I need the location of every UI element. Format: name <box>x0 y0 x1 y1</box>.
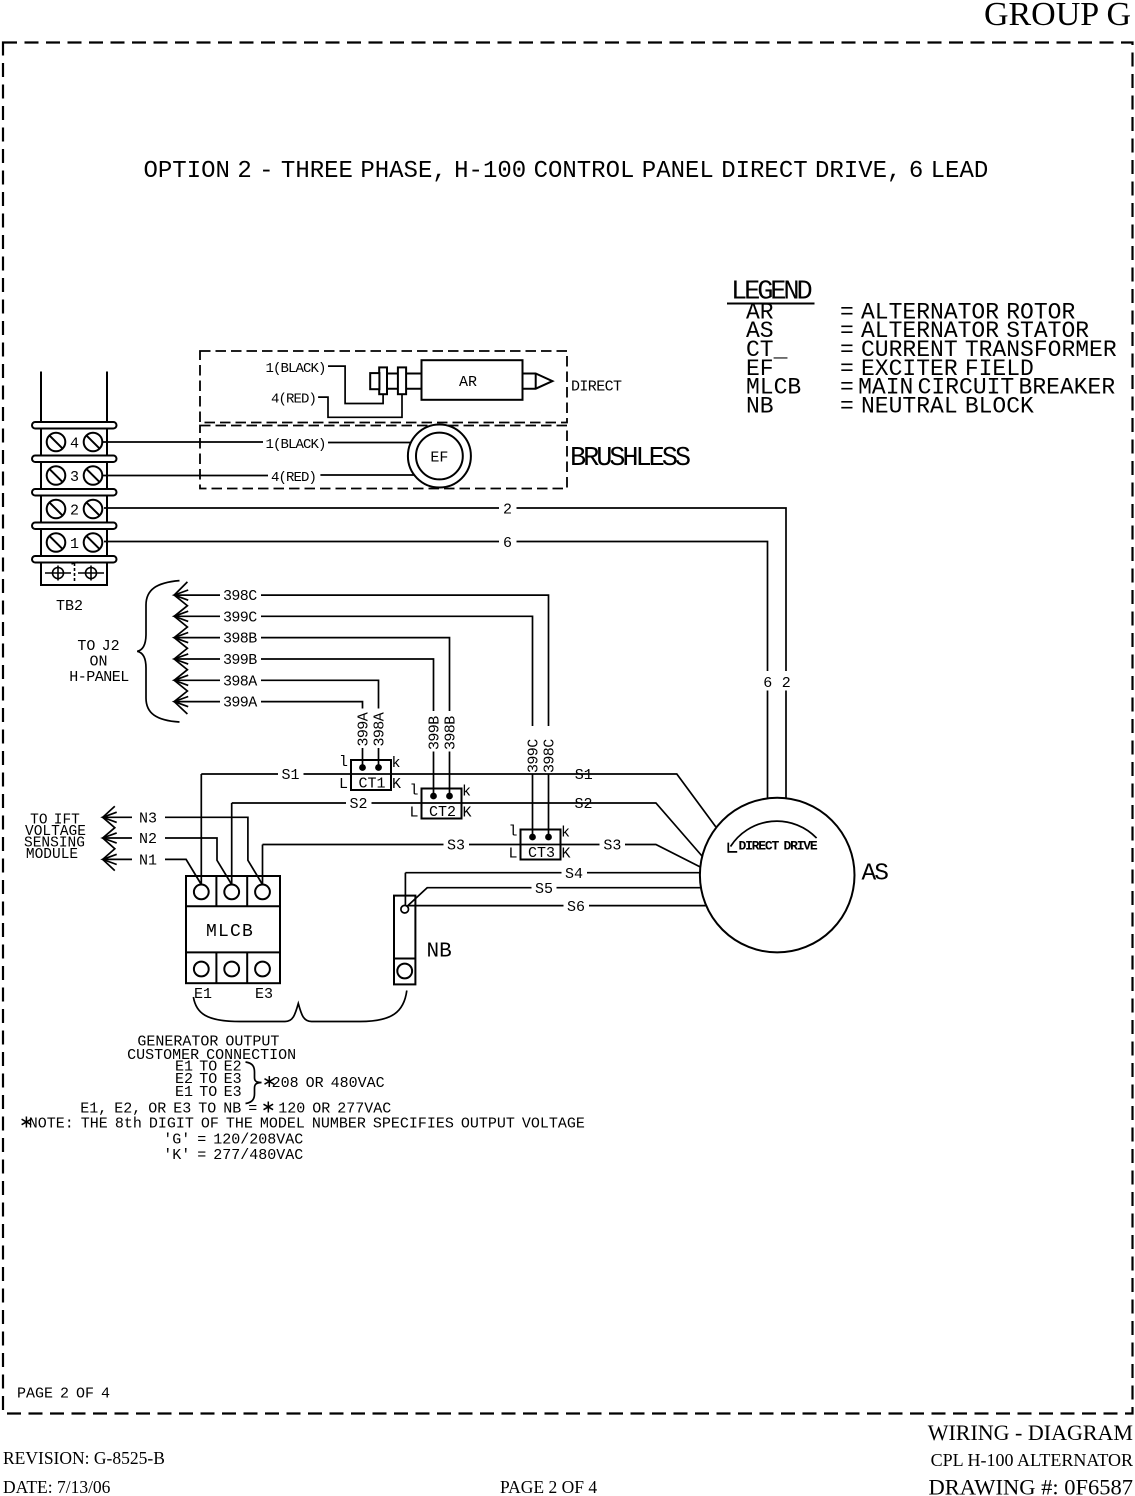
dashed enclosure BRUSHLESS section <box>200 426 567 489</box>
svg-text:CT1: CT1 <box>358 776 385 793</box>
svg-text:E1 TO E3: E1 TO E3 <box>175 1084 242 1101</box>
svg-text:399C: 399C <box>223 609 257 626</box>
svg-text:S2: S2 <box>349 796 367 813</box>
svg-text:K: K <box>392 776 401 793</box>
current transformer CT2 <box>422 789 462 819</box>
TB2 rail bar 2 <box>32 456 117 463</box>
wire N3 <box>103 816 132 818</box>
TB2 mounting hole left <box>45 566 71 581</box>
svg-text:399B: 399B <box>223 652 257 669</box>
wire 398C <box>174 594 220 596</box>
AR drive pointer <box>523 374 553 389</box>
current transformer CT1 <box>351 760 391 790</box>
wire N1 <box>103 858 132 860</box>
svg-text:S3: S3 <box>603 838 621 855</box>
svg-text:L: L <box>409 805 418 822</box>
TB2 screw terminal 3R <box>84 466 103 485</box>
TB2 rail bar 1 <box>32 422 117 429</box>
arrowhead N3 <box>103 812 117 822</box>
rotation arc arrow <box>731 821 817 846</box>
AR slip ring 1 <box>379 367 387 394</box>
svg-text:398C: 398C <box>542 739 559 773</box>
NB terminal circle <box>397 964 412 979</box>
svg-text:3: 3 <box>70 469 79 486</box>
main circuit breaker MLCB body <box>186 876 280 983</box>
svg-text:MODULE: MODULE <box>26 847 78 863</box>
svg-text:OPTION 2 - THREE PHASE, H-100: OPTION 2 - THREE PHASE, H-100 CONTROL PA… <box>144 158 989 185</box>
cable zigzag TO J2 <box>174 582 187 714</box>
wire 399C <box>174 615 220 617</box>
svg-text:AR: AR <box>459 374 477 391</box>
svg-text:H-PANEL: H-PANEL <box>69 669 129 686</box>
svg-text:K: K <box>462 805 471 822</box>
svg-text:398C: 398C <box>223 588 257 605</box>
svg-text:1: 1 <box>70 536 79 553</box>
svg-text:= NEUTRAL BLOCK: = NEUTRAL BLOCK <box>840 394 1034 420</box>
svg-text:NB: NB <box>427 941 452 964</box>
svg-text:TB2: TB2 <box>56 598 83 615</box>
svg-text:ON: ON <box>89 654 107 671</box>
svg-text:REVISION: G-8525-B: REVISION: G-8525-B <box>3 1448 165 1468</box>
wire S3 <box>262 845 264 885</box>
TB2 mounting hole right <box>78 566 104 581</box>
svg-text:k: k <box>391 755 400 772</box>
svg-text:S5: S5 <box>535 881 553 898</box>
cable zigzag TO IFT <box>103 806 115 870</box>
MLCB terminal bottom E1 <box>194 962 209 977</box>
svg-text:399B: 399B <box>427 716 444 750</box>
wire N2 <box>103 837 132 839</box>
svg-text:BRUSHLESS: BRUSHLESS <box>570 444 690 474</box>
svg-text:NOTE: THE 8th DIGIT OF THE MOD: NOTE: THE 8th DIGIT OF THE MODEL NUMBER … <box>22 1116 585 1133</box>
MLCB terminal top 2 <box>224 885 239 900</box>
svg-text:2: 2 <box>70 502 79 519</box>
svg-text:4: 4 <box>70 435 79 452</box>
arrowhead 398A <box>174 675 188 685</box>
TB2 screw terminal 2R <box>84 500 103 519</box>
svg-text:6: 6 <box>763 675 772 692</box>
svg-text:L: L <box>508 846 517 863</box>
asterisk star 208 <box>265 1076 275 1087</box>
svg-text:NB: NB <box>746 394 774 420</box>
svg-text:N3: N3 <box>139 810 157 827</box>
arrowhead N2 <box>103 833 117 843</box>
arrowhead 398B <box>174 633 188 643</box>
alternator stator AS circle <box>700 798 855 953</box>
neutral block NB body <box>394 896 415 985</box>
svg-text:4(RED): 4(RED) <box>271 392 316 408</box>
svg-text:L: L <box>339 776 348 793</box>
TB2 screw terminal 1L <box>47 533 66 552</box>
wire S2 <box>231 803 233 885</box>
svg-text:E3: E3 <box>255 986 273 1003</box>
exciter field EF coil <box>408 425 471 488</box>
arrowhead 399C <box>174 611 188 621</box>
TB2 screw terminal 4R <box>84 433 103 452</box>
svg-text:PAGE 2 OF 4: PAGE 2 OF 4 <box>17 1386 110 1403</box>
svg-text:DRAWING #: 0F6587: DRAWING #: 0F6587 <box>929 1475 1133 1496</box>
arrowhead 398C <box>174 590 188 600</box>
svg-text:WIRING - DIAGRAM: WIRING - DIAGRAM <box>928 1420 1133 1445</box>
svg-text:l: l <box>339 754 348 771</box>
svg-text:DIRECT: DIRECT <box>571 378 622 395</box>
TB2 rail bar 4 <box>32 523 117 530</box>
wire 398A <box>174 679 220 681</box>
svg-text:k: k <box>462 784 471 801</box>
svg-text:4(RED): 4(RED) <box>271 470 316 486</box>
svg-text:N2: N2 <box>139 831 157 848</box>
alternator rotor AR body <box>422 360 523 400</box>
svg-text:2: 2 <box>503 501 512 518</box>
dashed enclosure DIRECT section <box>200 351 567 423</box>
arrowhead 399B <box>174 654 188 664</box>
AR shaft end cap <box>370 373 379 389</box>
wire TB2 lead right <box>106 372 108 423</box>
TB2 screw terminal 2L <box>47 500 66 519</box>
TB2 screw terminal 3L <box>47 466 66 485</box>
MLCB terminal bottom E2 <box>224 962 239 977</box>
wire 398B <box>174 637 220 639</box>
wire TB2-3 to 4(RED) exciter <box>102 475 268 477</box>
svg-text:N1: N1 <box>139 852 157 869</box>
cable brace TO J2 <box>137 581 179 722</box>
MLCB terminal top 1 <box>194 885 209 900</box>
svg-text:l: l <box>409 783 418 800</box>
svg-text:E1: E1 <box>194 986 212 1003</box>
svg-text:S2: S2 <box>574 796 592 813</box>
svg-text:1(BLACK): 1(BLACK) <box>266 361 326 377</box>
svg-text:'K' = 277/480VAC: 'K' = 277/480VAC <box>163 1147 303 1164</box>
wire S6 <box>408 905 564 907</box>
asterisk star 120 <box>264 1102 274 1113</box>
TB2 center jumper mark <box>72 562 78 582</box>
asterisk star NOTE <box>22 1117 32 1128</box>
svg-text:CPL H-100 ALTERNATOR: CPL H-100 ALTERNATOR <box>931 1450 1133 1470</box>
svg-text:S4: S4 <box>565 866 583 883</box>
MLCB terminal top 3 <box>255 885 270 900</box>
wire 2 <box>104 507 499 509</box>
svg-text:CT3: CT3 <box>528 845 555 862</box>
svg-text:208 OR 480VAC: 208 OR 480VAC <box>265 1075 385 1092</box>
svg-text:k: k <box>561 825 570 842</box>
svg-text:399C: 399C <box>526 739 543 773</box>
AR slip ring 2 <box>398 367 406 394</box>
svg-text:398A: 398A <box>223 673 257 690</box>
wire 4(RED) rotor <box>318 394 402 417</box>
TB2 rail bar 5 <box>32 556 117 563</box>
wire 6 <box>104 541 499 543</box>
svg-text:2: 2 <box>782 675 791 692</box>
NB top terminal <box>401 905 409 913</box>
TB2 screw terminal 4L <box>47 433 66 452</box>
terminal block TB2 body <box>41 422 107 585</box>
svg-text:S1: S1 <box>281 767 299 784</box>
svg-text:399A: 399A <box>223 695 257 712</box>
svg-text:398A: 398A <box>372 712 389 746</box>
wire S5 <box>407 888 531 907</box>
svg-text:TO J2: TO J2 <box>77 638 119 655</box>
svg-text:K: K <box>561 846 570 863</box>
arrowhead N1 <box>103 854 117 864</box>
svg-text:GROUP G: GROUP G <box>984 0 1131 33</box>
svg-text:398B: 398B <box>443 716 460 750</box>
svg-text:6: 6 <box>503 535 512 552</box>
current transformer CT3 <box>521 830 561 860</box>
TB2 screw terminal 1R <box>84 533 103 552</box>
note group brace <box>246 1062 262 1104</box>
MLCB terminal bottom E3 <box>255 962 270 977</box>
wire TB2 lead left <box>40 372 42 423</box>
svg-text:398B: 398B <box>223 631 257 648</box>
svg-text:PAGE 2 OF 4: PAGE 2 OF 4 <box>500 1477 597 1496</box>
svg-text:AS: AS <box>862 861 889 888</box>
svg-text:DIRECT DRIVE: DIRECT DRIVE <box>738 838 817 853</box>
wire S1 <box>200 774 202 885</box>
TB2 rail bar 3 <box>32 489 117 496</box>
svg-text:l: l <box>508 824 517 841</box>
wire S4 <box>404 873 406 906</box>
AR shaft <box>372 373 422 375</box>
svg-text:S6: S6 <box>567 899 585 916</box>
svg-text:MLCB: MLCB <box>206 922 254 942</box>
svg-text:S1: S1 <box>575 767 593 784</box>
svg-text:S3: S3 <box>447 838 465 855</box>
wire 1(BLACK) rotor <box>328 366 383 403</box>
svg-text:1(BLACK): 1(BLACK) <box>266 437 326 453</box>
wire 399A <box>174 701 220 703</box>
customer connection brace <box>193 991 406 1022</box>
svg-text:399A: 399A <box>356 712 373 746</box>
arrowhead 399A <box>174 697 188 707</box>
wire TB2-4 to 1(BLACK) exciter <box>102 441 263 443</box>
svg-text:CT2: CT2 <box>429 804 456 821</box>
svg-text:EF: EF <box>430 450 448 467</box>
wire 399B <box>174 658 220 660</box>
svg-text:DATE: 7/13/06: DATE: 7/13/06 <box>3 1477 111 1496</box>
